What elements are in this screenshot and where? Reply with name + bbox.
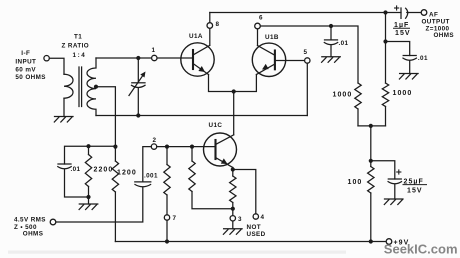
resistor 1000 (right) [382, 13, 388, 126]
node bias A / tap [113, 145, 117, 149]
capacitor 25uF lead bottom [394, 185, 396, 200]
node 2 / resistor 3 [190, 145, 194, 149]
transistor U1A circle [181, 43, 214, 76]
capacitor .01 (right) lead bottom [409, 61, 411, 74]
capacitor 1uF plates [401, 8, 408, 18]
variable capacitor C1 leads [137, 58, 139, 116]
variable capacitor C1 arrow [129, 72, 146, 96]
top rail [210, 12, 401, 14]
svg-text:OHMS: OHMS [23, 231, 44, 238]
svg-text:T1: T1 [74, 34, 82, 41]
transistor U1B base bar [274, 51, 276, 70]
wire emitter resistor to pin 3 [232, 203, 234, 229]
svg-text:3: 3 [238, 216, 242, 223]
resistor 1200 [112, 161, 118, 192]
svg-text:.01: .01 [418, 55, 428, 62]
capacitor 25uF plates [388, 179, 401, 184]
svg-text:U1C: U1C [209, 122, 223, 129]
transistor U1C base bar [214, 140, 216, 159]
terminal pin 5 [305, 58, 310, 63]
wire input to T1 primary [49, 58, 64, 74]
terminal circles [44, 10, 427, 245]
wire 1uF to AF output [407, 12, 422, 14]
wire tank bottom (secondary bottom to pin 5 drop) [96, 115, 307, 117]
label 25uF [403, 178, 428, 185]
capacitor .01 (first) lead bottom [330, 45, 332, 56]
terminal +9V [386, 239, 392, 245]
wire pin 6 to 1000 ohm [258, 26, 359, 83]
wire primary bottom to ground [63, 98, 65, 116]
terminal node 2 [151, 144, 156, 149]
transistor U1C collector [216, 135, 234, 145]
node 2200 ground [86, 195, 90, 199]
svg-text:.001: .001 [144, 173, 158, 180]
wire to decoupled node [370, 126, 372, 161]
wire pin 8 riser [209, 13, 211, 46]
terminal pin 8 [207, 23, 213, 29]
svg-text:6: 6 [259, 15, 263, 22]
wire to .01 (right) [386, 42, 410, 56]
node decouple top [383, 39, 387, 43]
transistor U1B emitter [256, 64, 275, 75]
svg-text:OHMS: OHMS [434, 32, 455, 39]
svg-text:AF: AF [429, 12, 438, 19]
svg-text:100: 100 [348, 179, 363, 186]
resistor (node2 to node3) [189, 147, 233, 209]
capacitor .01 (right) plates [403, 56, 416, 61]
wire 2200 node to ground [88, 197, 90, 204]
faint print-through band [8, 251, 346, 254]
svg-text:USED: USED [247, 231, 266, 238]
transformer T1 core [79, 67, 82, 107]
svg-text:OUTPUT: OUTPUT [422, 19, 450, 26]
node 1000 bottoms [369, 124, 373, 128]
wire 1000 bottoms join [358, 125, 386, 127]
svg-text:7: 7 [173, 215, 177, 222]
ground (first .01) [322, 57, 341, 63]
node top rail / 1uF [383, 10, 387, 14]
wire T1 tap to bias chain [96, 87, 115, 161]
node tank top / var cap [136, 56, 140, 60]
capacitor .001 plates [135, 182, 151, 187]
transistor U1B collector [258, 26, 275, 55]
ground (right .01) [399, 74, 418, 80]
node tank bottom / var cap [136, 113, 140, 117]
wire to 25uF [371, 161, 395, 179]
terminal pin 3 [230, 216, 235, 221]
variable capacitor C1 plates [132, 83, 146, 88]
transistor U1B base lead to pin 5 [275, 60, 305, 62]
ground (25uF) [384, 199, 403, 205]
node 2 / resistor 7 [165, 145, 169, 149]
svg-text:4: 4 [261, 214, 265, 221]
svg-text:.01: .01 [339, 40, 349, 47]
svg-text:I-F: I-F [21, 50, 30, 57]
svg-text:8: 8 [216, 21, 220, 28]
label + of 25uF [396, 169, 401, 174]
resistor U1C emitter [230, 176, 236, 203]
wire pin 5 vertical drop [306, 63, 308, 115]
wire node 2 to U1C base [143, 147, 216, 182]
node U1C emitter [231, 167, 235, 171]
svg-text:Z RATIO: Z RATIO [62, 42, 90, 49]
terminal pin 6 [255, 23, 261, 29]
svg-text:1:4: 1:4 [73, 52, 87, 59]
node T1 tap [94, 85, 98, 89]
terminal AF output [421, 10, 427, 16]
resistor 100 [368, 161, 374, 242]
transistor U1C circle [204, 133, 237, 166]
capacitor .01 (left) plates [58, 164, 71, 169]
terminal pin 4 [253, 214, 258, 219]
transistor U1B circle [252, 43, 285, 76]
node pin 3 [231, 207, 235, 211]
wire emitter node to pin 4 [233, 170, 256, 214]
ground (2200 node) [79, 204, 98, 210]
resistor (node2 to pin7) [164, 147, 170, 242]
wire U1C emitter node [232, 168, 234, 177]
svg-text:60 mV: 60 mV [15, 66, 36, 73]
svg-text:1000: 1000 [393, 90, 413, 97]
node bias A / 2200 [86, 144, 90, 148]
terminal input [44, 56, 49, 61]
wire bias rail A [65, 146, 116, 164]
terminal 4.5V output [50, 219, 56, 225]
terminal pin 7 [164, 215, 169, 220]
transistor U1C emitter [216, 158, 233, 168]
svg-text:2200: 2200 [94, 167, 114, 174]
wire .001 bottom to 4.5V terminal [56, 187, 143, 222]
capacitor .01 (first) lead top [330, 26, 332, 40]
terminal node 1 [152, 55, 157, 60]
node 100 / 25uF [369, 159, 373, 163]
label + of 1uF [394, 5, 399, 10]
capacitor .01 (first) plates [324, 40, 337, 45]
svg-text:1200: 1200 [117, 170, 137, 177]
ground (pin 3) [223, 229, 242, 235]
svg-text:5: 5 [304, 49, 308, 56]
resistor 1000 (left) [355, 83, 361, 126]
transformer T1 primary winding [64, 74, 73, 98]
svg-text:50 OHMS: 50 OHMS [15, 74, 45, 81]
svg-text:INPUT: INPUT [15, 59, 36, 66]
node pin6 wire / .01 [329, 24, 333, 28]
wire 1200 bottom to rail [114, 192, 116, 242]
svg-text:15V: 15V [407, 187, 423, 194]
transistor U1A collector [193, 45, 210, 55]
svg-text:1: 1 [152, 47, 156, 54]
transistor U1A base bar [192, 50, 194, 69]
svg-text:U1B: U1B [265, 34, 279, 41]
svg-text:4.5V RMS: 4.5V RMS [14, 217, 46, 224]
node rail 100 [369, 239, 373, 243]
svg-text:NOT: NOT [247, 224, 262, 231]
ground (T1 primary) [54, 117, 73, 123]
svg-text:.01: .01 [71, 166, 81, 173]
node rail pin 7 [165, 239, 169, 243]
wire tank top (secondary top to U1A base) [96, 57, 193, 59]
svg-text:U1A: U1A [189, 33, 203, 40]
label 1uF [393, 22, 410, 29]
svg-text:15V: 15V [395, 30, 411, 37]
transistor U1A emitter [193, 64, 209, 75]
svg-text:2: 2 [153, 137, 157, 144]
svg-text:SeekIC.com: SeekIC.com [384, 241, 458, 256]
wire common emitters to U1C collector [233, 92, 235, 135]
wire emitter common [209, 75, 257, 92]
transformer T1 secondary winding [87, 58, 96, 116]
resistor 2200 [85, 146, 91, 197]
bottom rail [115, 241, 386, 243]
svg-text:1000: 1000 [333, 91, 353, 98]
node common emitters [232, 89, 236, 93]
wire .01 left bottom [65, 170, 89, 198]
